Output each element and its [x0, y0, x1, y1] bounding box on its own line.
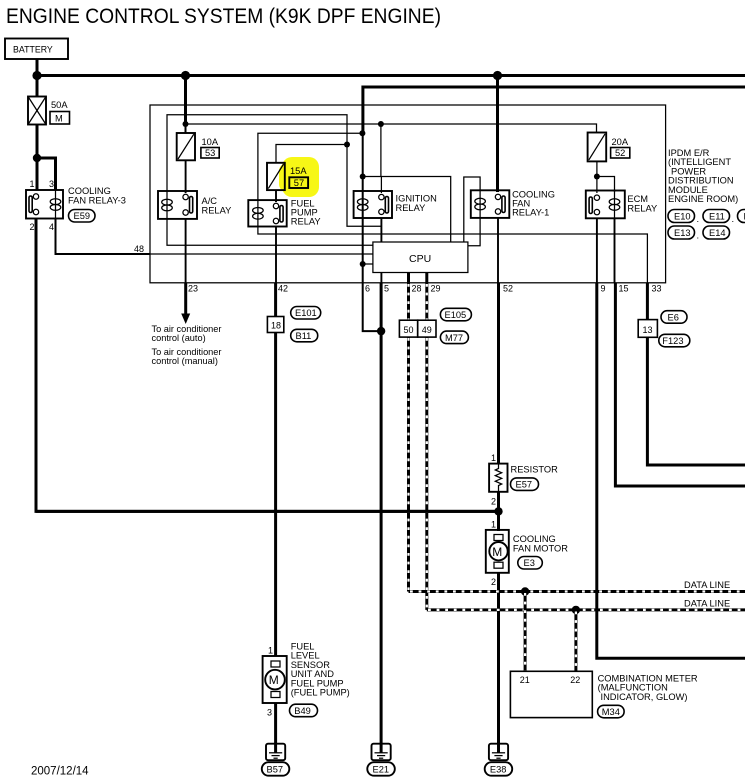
svg-text:E57: E57 — [516, 480, 533, 490]
wire 15A fuse top feed — [276, 145, 347, 163]
wire fuel pump contact bottom to pin 42 — [275, 227, 277, 283]
svg-text:COOLING: COOLING — [513, 534, 556, 544]
wire pin 52 to resistor — [497, 283, 500, 464]
connector E101 — [291, 307, 321, 320]
wire ECM contact bottom to pin 9 — [596, 218, 598, 282]
svg-text:RESISTOR: RESISTOR — [511, 465, 559, 475]
connector E6 — [661, 311, 687, 324]
cooling fan motor E3 — [486, 520, 568, 588]
svg-text:M34: M34 — [602, 707, 620, 717]
svg-text:B11: B11 — [296, 331, 312, 341]
wire motor to ground E38 — [497, 573, 500, 753]
node pins 5-6 join — [377, 327, 385, 335]
svg-text:RELAY: RELAY — [627, 204, 657, 214]
svg-text:ENGINE CONTROL SYSTEM (K9K DPF: ENGINE CONTROL SYSTEM (K9K DPF ENGINE) — [6, 4, 441, 28]
svg-text:23: 23 — [188, 284, 198, 294]
wire ignition contact top — [380, 177, 382, 194]
svg-text:3: 3 — [267, 708, 272, 718]
wire relay-3 pin2 horizontal over dashes — [36, 510, 499, 513]
svg-text:COOLING: COOLING — [68, 186, 111, 196]
connector 13 — [638, 320, 657, 338]
svg-text:E13: E13 — [674, 228, 691, 238]
svg-text:50A: 50A — [51, 100, 68, 110]
wire pin 23 to A/C control arrow — [184, 283, 187, 315]
svg-text:E3: E3 — [524, 558, 535, 568]
fuse 10A 53 — [177, 133, 220, 160]
wire pin 5 to ground E21 — [380, 283, 383, 753]
wire ignition coil to CPU left — [363, 263, 373, 265]
fuel level sensor unit and fuel pump B49 — [263, 642, 350, 718]
svg-text:5: 5 — [384, 284, 389, 294]
svg-text:M: M — [269, 673, 279, 687]
svg-text:.: . — [732, 214, 735, 224]
svg-text:ENGINE ROOM): ENGINE ROOM) — [668, 194, 738, 204]
svg-text:21: 21 — [520, 675, 530, 685]
battery bus wire — [37, 74, 745, 77]
node resistor-motor-relay3 — [494, 507, 502, 515]
svg-text:1: 1 — [30, 179, 35, 189]
CPU stub pin 29 — [425, 273, 428, 283]
svg-text:.: . — [697, 214, 700, 224]
cooling fan relay-3 E59 — [26, 179, 126, 232]
svg-text:15A: 15A — [290, 166, 307, 176]
svg-text:M: M — [55, 114, 63, 124]
wire relay-3 pin4 to IPDM pin48 — [56, 219, 151, 255]
svg-text:E10: E10 — [674, 212, 691, 222]
svg-text:2: 2 — [491, 577, 496, 587]
connector F123 — [659, 334, 690, 347]
wire fuel pump coil bottom to pin 33 — [258, 227, 648, 283]
svg-text:RELAY-1: RELAY-1 — [512, 208, 549, 218]
wire ignition coil feed to CPU top — [363, 177, 451, 243]
node 15A feed — [344, 142, 350, 148]
svg-text:INDICATOR, GLOW): INDICATOR, GLOW) — [601, 692, 688, 702]
wire 48 to CPU — [150, 253, 373, 255]
dashed wire data line 1 to meter pin 21 — [524, 592, 527, 672]
connector E11 — [703, 210, 734, 225]
node data line 1 branch — [521, 587, 529, 595]
svg-text:4: 4 — [49, 222, 54, 232]
fuse 20A 52 — [588, 133, 630, 162]
svg-text:28: 28 — [412, 284, 422, 294]
wire relay-1 contact bottom to pin 52 — [497, 218, 499, 283]
svg-text:(FUEL PUMP): (FUEL PUMP) — [291, 688, 350, 698]
wire pin 6 to junction — [363, 283, 381, 331]
ignition feed wire from right edge — [363, 87, 745, 133]
wire pin 15 to right edge — [615, 283, 745, 486]
connector 49 — [418, 320, 436, 337]
svg-text:CPU: CPU — [409, 253, 431, 265]
fuse 15A 57 — [267, 163, 308, 190]
wire pin5 drop from rail — [380, 124, 382, 177]
wire A/C contact bottom to pin 23 — [185, 219, 187, 283]
data line 1 — [409, 580, 745, 592]
svg-text:33: 33 — [652, 284, 662, 294]
wire pin 42 to fuel pump — [274, 283, 277, 656]
wire resistor to motor node — [497, 492, 500, 531]
svg-text:1: 1 — [268, 646, 273, 656]
wire ignition contact bottom to pin 5 — [380, 218, 382, 283]
wire branch to relay pin 3 — [37, 158, 56, 190]
node fuse rail left — [183, 121, 189, 127]
wire pin 9 to right edge — [597, 283, 745, 658]
fuel pump relay — [248, 199, 320, 227]
wire fuel pump to ground B57 — [274, 703, 277, 753]
svg-text:13: 13 — [643, 325, 653, 335]
svg-text:B49: B49 — [294, 706, 311, 716]
IPDM E/R outer box — [150, 105, 666, 283]
svg-text:E105: E105 — [445, 310, 467, 320]
ignition relay — [354, 191, 437, 218]
CPU box — [373, 242, 468, 273]
svg-text:BATTERY: BATTERY — [13, 45, 53, 55]
connector B11 — [291, 329, 318, 342]
svg-text:E11: E11 — [709, 212, 725, 222]
CPU stub pin 28 — [407, 273, 410, 283]
svg-text:B57: B57 — [267, 764, 284, 774]
connector E12 clipped — [738, 210, 745, 223]
svg-text:RELAY: RELAY — [202, 206, 232, 216]
svg-text:29: 29 — [431, 284, 441, 294]
svg-text:DATA LINE: DATA LINE — [684, 580, 730, 590]
node battery branch — [33, 154, 41, 162]
svg-text:49: 49 — [422, 325, 432, 335]
svg-text:M: M — [492, 545, 502, 559]
node rail pin5 — [378, 121, 384, 127]
fuse supply rail wire — [186, 124, 597, 133]
wire relay-1 coil bottom to CPU right — [468, 218, 480, 246]
svg-text:E101: E101 — [295, 308, 317, 318]
svg-text:A/C: A/C — [202, 196, 218, 206]
connector M77 — [440, 331, 468, 344]
svg-text:10A: 10A — [202, 137, 219, 147]
svg-text:52: 52 — [615, 148, 625, 158]
svg-text:M77: M77 — [445, 333, 463, 343]
dashed wire pin 28 — [407, 283, 410, 320]
wire ECM coil branch — [597, 177, 615, 193]
svg-text:E21: E21 — [373, 764, 390, 774]
svg-text:22: 22 — [570, 675, 580, 685]
svg-text:FAN MOTOR: FAN MOTOR — [513, 544, 568, 554]
svg-text:E6: E6 — [668, 312, 679, 322]
node ignition coil feed — [360, 174, 366, 180]
dashed wire data line 2 to meter pin 22 — [574, 610, 577, 671]
node bus-10A-branch — [181, 71, 190, 80]
svg-text:E14: E14 — [709, 228, 726, 238]
svg-text:2007/12/14: 2007/12/14 — [31, 766, 89, 778]
data line 2 — [427, 599, 745, 610]
wire A/C coil bottom to CPU — [167, 219, 373, 245]
wire bus drop to relay-1 contact — [496, 76, 499, 193]
svg-text:RELAY: RELAY — [291, 217, 321, 227]
ground B57 — [262, 744, 290, 776]
wire 10A fuse to A/C relay contact — [185, 160, 187, 193]
highlight blob behind 15A/57 labels — [282, 157, 319, 197]
connector 18 — [267, 317, 283, 333]
svg-text:48: 48 — [134, 244, 144, 254]
svg-text:control (auto): control (auto) — [152, 333, 206, 343]
connector E105 — [440, 308, 471, 321]
svg-text:1: 1 — [491, 453, 496, 463]
ECM relay — [586, 191, 657, 219]
wire bus drop to 10A fuse — [184, 76, 187, 125]
node ignition coil to CPU — [360, 261, 366, 267]
wire ignition vertical — [362, 133, 364, 282]
wire 15A fuse to fuel pump relay contact — [275, 190, 277, 202]
svg-text:FAN RELAY-3: FAN RELAY-3 — [68, 196, 126, 206]
svg-text:2: 2 — [491, 497, 496, 507]
dashed wire 49 to data line 2 — [425, 337, 428, 610]
svg-text:F123: F123 — [662, 336, 683, 346]
svg-text:E59: E59 — [74, 211, 91, 221]
cooling fan relay-1 — [471, 190, 555, 218]
node ECM feed — [594, 174, 600, 180]
svg-text:52: 52 — [503, 284, 513, 294]
svg-text:ECM: ECM — [627, 194, 648, 204]
svg-text:20A: 20A — [612, 137, 629, 147]
svg-text:RELAY: RELAY — [396, 203, 426, 213]
resistor E57 — [489, 453, 558, 507]
svg-text:E38: E38 — [490, 764, 507, 774]
connector 50 — [399, 320, 417, 337]
svg-text:6: 6 — [365, 284, 370, 294]
svg-text:18: 18 — [271, 321, 281, 331]
connector E10 — [668, 210, 699, 225]
svg-text:42: 42 — [278, 284, 288, 294]
A/C relay — [158, 191, 231, 219]
ground E21 — [367, 744, 395, 776]
svg-text:53: 53 — [205, 148, 215, 158]
dashed wire 50 to data line 1 — [407, 337, 410, 591]
connector E13 — [668, 226, 699, 241]
svg-text:control (manual): control (manual) — [152, 356, 218, 366]
svg-text:IGNITION: IGNITION — [396, 194, 437, 204]
wire relay-1 coil top to CPU top — [464, 177, 480, 242]
wire fusible link to node — [36, 125, 39, 191]
svg-text:.: . — [697, 231, 700, 241]
svg-text:57: 57 — [294, 178, 304, 188]
wire A/C coil top loop to ign contact branch — [167, 115, 381, 227]
IPDM E/R label text — [668, 148, 738, 204]
node bus-battery — [32, 71, 41, 80]
node fuel pump coil feed — [359, 130, 365, 136]
svg-text:1: 1 — [491, 520, 496, 530]
wire relay-3 pin2 to resistor node — [36, 219, 499, 512]
wire 20A fuse to ECM relay — [596, 161, 598, 193]
wire pin 33 to right edge — [647, 283, 745, 465]
node data line 2 branch — [572, 606, 580, 614]
dashed wire pin 29 — [425, 283, 428, 320]
svg-text:15: 15 — [619, 284, 629, 294]
node bus-relay1-branch — [493, 71, 502, 80]
combination meter M34 — [510, 671, 698, 718]
svg-text:2: 2 — [30, 222, 35, 232]
wire ECM coil bottom to pin 15 — [614, 218, 616, 282]
svg-text:3: 3 — [49, 179, 54, 189]
fusible link 50A — [28, 97, 70, 125]
svg-text:50: 50 — [404, 325, 414, 335]
svg-text:9: 9 — [601, 284, 606, 294]
ground E38 — [485, 744, 513, 776]
wire battery to bus — [36, 59, 39, 76]
connector E14 — [703, 226, 730, 239]
wire bus to fusible link — [36, 76, 39, 97]
svg-text:DATA LINE: DATA LINE — [684, 599, 730, 609]
battery B1 — [5, 39, 68, 60]
wire fuel pump coil top feed — [258, 133, 363, 200]
